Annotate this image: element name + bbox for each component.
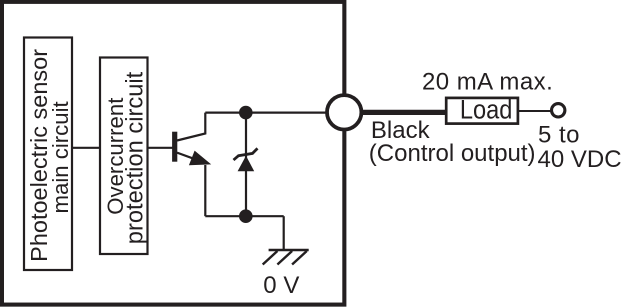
block: Photoelectric sensor main circuit [24,38,72,271]
svg-text:protection circuit: protection circuit [123,71,149,244]
wire: top rail to output circle [205,111,330,113]
wire: box1 to box2 [72,147,100,149]
svg-text:20 mA max.: 20 mA max. [422,69,553,96]
ground symbol [269,249,309,251]
svg-text:Load: Load [460,95,513,125]
supply terminal circle [552,104,565,117]
transistor Q1 (NPN) base bar [172,132,177,162]
load box [446,98,518,124]
outer sensor enclosure box [2,2,344,305]
svg-text:40 VDC: 40 VDC [538,146,621,173]
transistor Q1 emitter arrowhead [189,151,211,166]
wire: to ground [283,216,285,250]
output terminal circle on enclosure wall [327,95,361,129]
zener diode ZD1 vertical wire [245,113,247,217]
wire: box2 to transistor base [148,147,175,149]
svg-text:5 to: 5 to [538,121,580,148]
block: Overcurrent protection circuit [100,58,148,255]
zener diode ZD1 anode triangle [238,156,255,171]
wire: bottom rail [205,215,283,217]
transistor Q1 collector lead [177,113,205,141]
wire: emitter down to bottom rail [204,165,206,216]
svg-text:0 V: 0 V [263,272,299,299]
junction dot bottom [239,209,253,223]
transistor Q1 emitter lead [177,153,195,160]
junction dot top [239,106,253,120]
wire: load to supply terminal [518,110,551,112]
zener diode ZD1 cathode bar with hooks [234,148,258,160]
thick wire: output to load [360,110,446,115]
svg-text:(Control output): (Control output) [369,140,536,167]
svg-text:main circuit: main circuit [48,101,73,213]
